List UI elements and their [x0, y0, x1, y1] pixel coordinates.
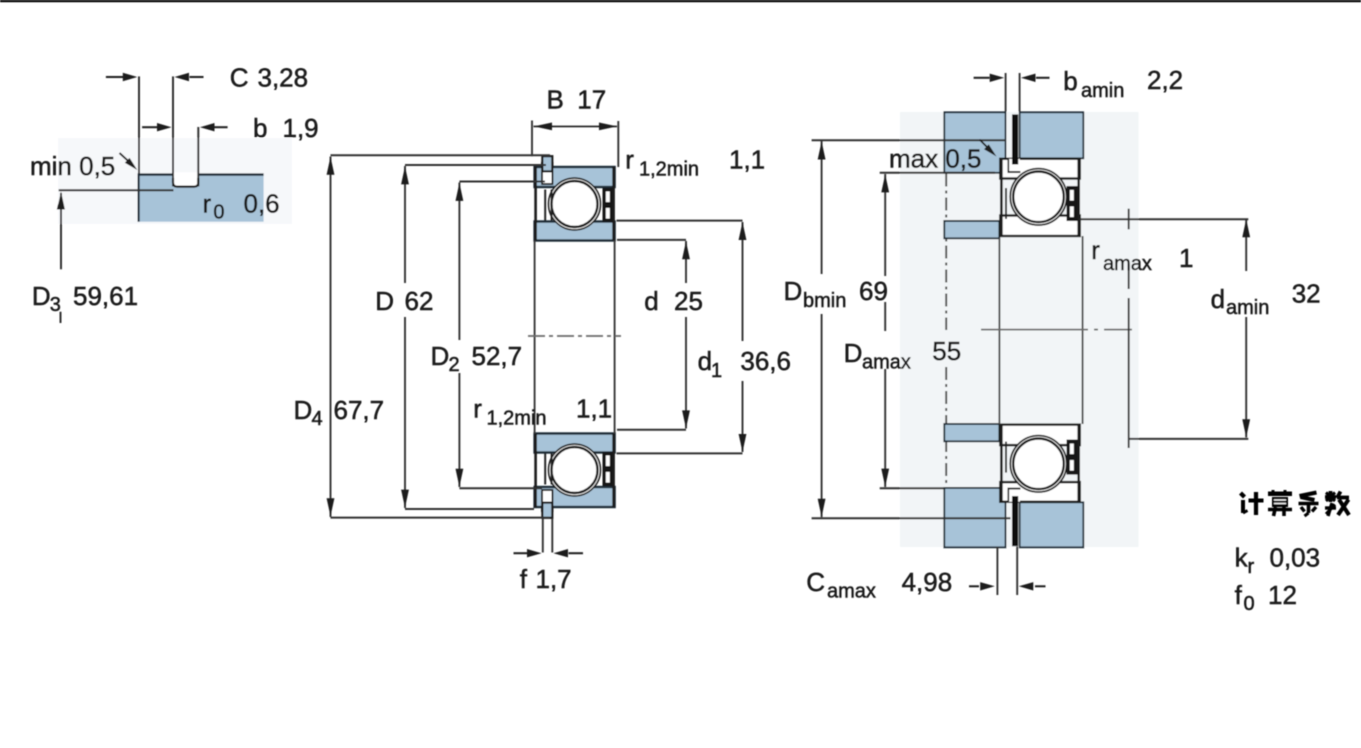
svg-text:b: b	[1063, 66, 1077, 96]
svg-text:1,2min: 1,2min	[639, 159, 699, 181]
svg-text:B: B	[547, 85, 564, 115]
svg-text:bmin: bmin	[803, 290, 846, 312]
svg-text:0,03: 0,03	[1270, 543, 1321, 573]
svg-text:r: r	[1091, 235, 1100, 265]
svg-text:55: 55	[932, 336, 961, 366]
svg-text:69: 69	[859, 276, 888, 306]
svg-text:d: d	[644, 286, 658, 316]
svg-text:k: k	[1235, 543, 1249, 573]
svg-text:17: 17	[577, 85, 606, 115]
svg-text:D: D	[844, 338, 863, 368]
svg-text:D: D	[431, 341, 450, 371]
svg-text:1: 1	[1179, 243, 1193, 273]
svg-text:1,1: 1,1	[729, 145, 765, 175]
svg-text:1,2min: 1,2min	[487, 408, 547, 430]
svg-text:67,7: 67,7	[334, 395, 385, 425]
svg-text:59,61: 59,61	[73, 281, 138, 311]
svg-text:2,2: 2,2	[1147, 65, 1183, 95]
svg-text:36,6: 36,6	[740, 346, 791, 376]
svg-text:f: f	[1235, 580, 1243, 610]
svg-text:r: r	[203, 189, 212, 219]
svg-text:d: d	[698, 346, 712, 376]
svg-text:0: 0	[213, 202, 224, 224]
svg-text:amin: amin	[1081, 80, 1124, 102]
svg-text:d: d	[1211, 284, 1225, 314]
svg-text:4,98: 4,98	[902, 567, 953, 597]
svg-text:52,7: 52,7	[472, 341, 523, 371]
svg-text:3,28: 3,28	[258, 63, 309, 93]
svg-text:r: r	[1248, 556, 1255, 578]
svg-text:amax: amax	[827, 581, 876, 603]
svg-text:min 0,5: min 0,5	[30, 151, 115, 181]
svg-text:amin: amin	[1226, 297, 1269, 319]
svg-text:D: D	[375, 286, 394, 316]
svg-text:2: 2	[449, 354, 460, 376]
svg-text:0: 0	[1244, 593, 1255, 615]
svg-text:1,7: 1,7	[536, 564, 572, 594]
svg-text:amax: amax	[1103, 253, 1152, 275]
svg-text:12: 12	[1268, 580, 1297, 610]
svg-text:1: 1	[711, 360, 722, 382]
svg-text:b: b	[253, 113, 267, 143]
svg-text:r: r	[625, 145, 634, 175]
svg-text:f: f	[520, 564, 528, 594]
svg-text:C: C	[806, 567, 825, 597]
svg-text:1,1: 1,1	[576, 394, 612, 424]
svg-text:max 0,5: max 0,5	[889, 144, 982, 174]
svg-text:4: 4	[312, 408, 323, 430]
svg-text:D: D	[32, 281, 51, 311]
svg-text:3: 3	[50, 294, 61, 316]
svg-text:1,9: 1,9	[283, 113, 319, 143]
svg-text:32: 32	[1292, 279, 1321, 309]
svg-text:r: r	[473, 394, 482, 424]
svg-text:62: 62	[405, 286, 434, 316]
svg-text:25: 25	[674, 286, 703, 316]
svg-text:C: C	[230, 63, 249, 93]
svg-text:D: D	[294, 395, 313, 425]
svg-text:amax: amax	[862, 352, 911, 374]
svg-text:0,6: 0,6	[244, 189, 280, 219]
svg-text:D: D	[784, 276, 803, 306]
